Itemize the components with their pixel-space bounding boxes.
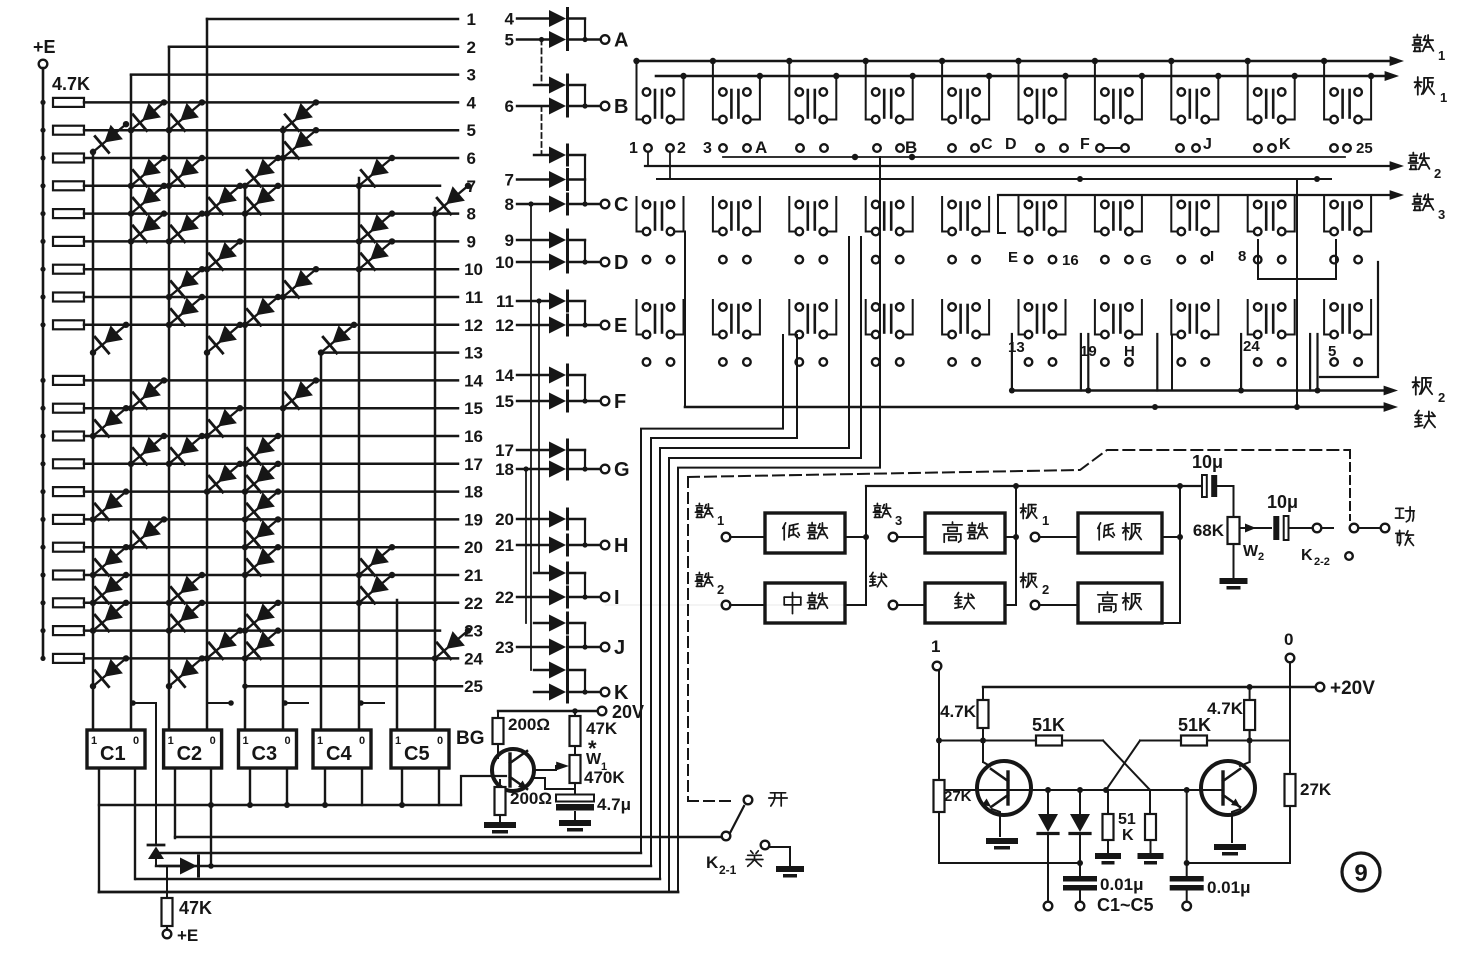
svg-text:I: I: [1210, 248, 1214, 265]
wire 4.7K left to collector: [982, 728, 984, 762]
svg-text:C1~C5: C1~C5: [1097, 895, 1154, 915]
svg-text:K: K: [1279, 136, 1291, 153]
label guan off: [751, 851, 753, 854]
resistor 51K mid-2: [1149, 790, 1151, 814]
wire middrum out2: [845, 604, 866, 606]
svg-text:47K: 47K: [179, 898, 212, 918]
wire cell row3-7 left: [1095, 300, 1101, 335]
wire cell row3-9 right: [1286, 300, 1295, 335]
diode steering D-a: [148, 844, 164, 847]
wire frame key 24: [1240, 334, 1242, 391]
wire mid join F: [584, 375, 586, 401]
wire pin 287: [286, 768, 288, 805]
wire 51K left out: [1062, 740, 1103, 742]
svg-text:5: 5: [1328, 343, 1336, 360]
svg-text:1: 1: [243, 735, 249, 747]
diode matrix D5-7: [245, 158, 278, 186]
node K2-2 contacts: [1313, 524, 1322, 533]
resistor 4.7K row 14: [53, 376, 84, 385]
wire cell row3-10 left: [1324, 300, 1330, 335]
wire cell row2-3 right: [827, 197, 836, 232]
svg-text:27K: 27K: [944, 788, 972, 805]
switch cell row3-10: [1341, 305, 1344, 333]
wire cell row3-8 left: [1171, 300, 1177, 335]
wire mid input 6: [517, 105, 549, 107]
diode mid E row 325: [549, 317, 566, 334]
switch K2-1 arm: [722, 832, 731, 841]
diode mid K row 670: [549, 662, 566, 679]
wire terminal0 drop: [1289, 662, 1291, 774]
node spare row3-4: [872, 358, 880, 366]
diode matrix D4-8: [207, 186, 240, 214]
wire cross B: [1106, 741, 1140, 791]
svg-text:0.01μ: 0.01μ: [1207, 878, 1251, 897]
wire jog c4: [209, 702, 231, 704]
svg-text:200Ω: 200Ω: [508, 715, 550, 734]
node spare row3-10: [1330, 358, 1338, 366]
block highdrum: [925, 513, 1005, 553]
wire matrix row line 4: [84, 101, 458, 104]
diode matrix D3-12: [169, 297, 202, 325]
diode matrix D2-17: [131, 436, 164, 464]
wire cell row2-6 left: [1019, 197, 1025, 232]
node keyC contact: [948, 144, 956, 152]
wire mid diode out D: [568, 239, 585, 241]
svg-text:2: 2: [1434, 166, 1441, 181]
switch cell row1-3: [806, 90, 809, 118]
diode matrix D4-18: [207, 464, 240, 492]
diode mid C row 155: [549, 147, 566, 164]
wire frame key 19: [1087, 334, 1089, 391]
wire bundle 3: [660, 237, 849, 879]
block lowdrum: [765, 513, 845, 553]
wire matrix row line 25: [245, 685, 462, 688]
wire cell row1-3 left: [789, 61, 795, 120]
diode matrix D2-15: [131, 380, 164, 408]
switch cell row3-2: [730, 305, 733, 333]
svg-text:H: H: [614, 535, 628, 557]
wire bo out: [1005, 604, 1016, 606]
resistor 27K left: [934, 780, 945, 812]
wire matrix row line 7: [84, 185, 440, 188]
svg-text:1: 1: [317, 735, 323, 747]
svg-text:4.7K: 4.7K: [1207, 699, 1244, 718]
resistor 4.7K right: [1249, 687, 1251, 700]
dashed box left: [687, 477, 689, 800]
wire cell row3-8 right: [1209, 300, 1218, 335]
svg-text:470K: 470K: [584, 768, 625, 787]
wire left emitter entry: [992, 809, 1000, 836]
resistor 4.7K row 16: [53, 432, 84, 441]
svg-text:6: 6: [467, 149, 476, 168]
wire cell row2-6 right: [1057, 197, 1066, 232]
svg-text:20: 20: [464, 538, 483, 557]
block middrum: [765, 583, 845, 623]
wire matrix row line 16: [84, 435, 458, 438]
wire mid branch feed I: [534, 572, 549, 574]
capacitor 0.01u left: [1063, 876, 1097, 882]
node spare row2-4: [872, 256, 880, 264]
diode timing left: [1047, 790, 1049, 814]
svg-text:9: 9: [467, 232, 476, 251]
svg-text:11: 11: [496, 292, 514, 311]
diode mid C row 204: [549, 196, 566, 213]
wire pin 135: [134, 768, 136, 879]
svg-text:18: 18: [464, 483, 483, 502]
wire cell row3-3 left: [789, 300, 795, 335]
svg-text:E: E: [1008, 249, 1018, 266]
wire mid input 21: [517, 544, 549, 546]
wire cell row1-7 right: [1133, 76, 1142, 120]
diode mid K row 692: [549, 684, 566, 701]
wire mid diode out D: [568, 261, 585, 263]
diode mid G row 450: [549, 442, 566, 459]
wire mid input 22: [517, 596, 549, 598]
svg-text:22: 22: [464, 594, 483, 613]
capacitor 10u first: [1202, 475, 1207, 497]
node output I: [601, 593, 610, 602]
svg-text:E: E: [614, 315, 627, 337]
node spare row2-6: [1025, 256, 1033, 264]
wire cell row1-9 left: [1248, 61, 1254, 120]
switch cell row1-2: [730, 90, 733, 118]
wire matrix row line 15: [84, 407, 458, 410]
switch cell row3-8: [1189, 305, 1192, 333]
resistor 4.7K row 15: [53, 404, 84, 413]
resistor 4.7K row 24: [53, 654, 84, 663]
wire bottom-left rail: [939, 862, 1080, 864]
diode matrix D6-11: [283, 269, 316, 297]
wire bundle 2: [651, 335, 797, 866]
wire cell row1-9 right: [1286, 76, 1295, 120]
node spare row2-1: [643, 256, 651, 264]
wire hbus 805: [99, 804, 461, 806]
diode matrix D5-19: [245, 492, 278, 520]
wire matrix row line 6: [84, 157, 458, 160]
svg-text:1: 1: [91, 735, 97, 747]
resistor 200ohm top: [497, 711, 499, 718]
wire pin 99: [98, 768, 100, 892]
wire hbus 866: [156, 865, 651, 867]
node input gu3: [876, 503, 878, 505]
dashed box bottom: [688, 800, 736, 802]
wire mid join A: [584, 19, 586, 40]
switch cell row2-6: [1036, 203, 1039, 230]
wire cell row2-8 right: [1209, 197, 1218, 232]
wire cell row2-4 right: [904, 197, 913, 232]
wire bundle 5: [678, 157, 880, 892]
diode matrix D4-13: [207, 325, 240, 353]
wire cell row3-9 left: [1248, 300, 1254, 335]
wire cell row1-7 left: [1095, 61, 1101, 120]
ground under cap: [574, 812, 576, 820]
svg-text:2: 2: [1438, 390, 1445, 405]
wire key8-key5 link: [1258, 240, 1336, 279]
diode matrix D2-8: [131, 186, 164, 214]
svg-text:15: 15: [464, 399, 483, 418]
switch cell row1-6: [1036, 90, 1039, 118]
svg-text:B: B: [614, 96, 628, 118]
svg-text:3: 3: [895, 513, 902, 528]
resistor 47K BG: [574, 711, 576, 716]
diode matrix D8-22: [359, 575, 392, 603]
resistor 4.7K row 17: [53, 459, 84, 468]
wire matrix column 9: [396, 600, 399, 730]
wire wiper 68K: [1240, 527, 1271, 529]
node spare row3-8: [1178, 358, 1186, 366]
switch cell row2-8: [1189, 203, 1192, 230]
wire mid input 17: [517, 449, 549, 451]
wire +E vertical rail: [42, 68, 45, 658]
wire after up diode: [155, 859, 157, 866]
wire gu3 left drop: [998, 195, 1005, 233]
wire mid diode out C: [568, 154, 585, 156]
resistor 4.7K row 10: [53, 265, 84, 274]
wire mid diode out I: [568, 572, 585, 574]
wire right collector entry: [1240, 730, 1250, 766]
wire mid input 7: [517, 178, 549, 180]
resistor 4.7K row 9: [53, 237, 84, 246]
node input ban1: [1022, 504, 1024, 519]
switch cell row2-4: [883, 203, 886, 230]
wire cell row1-10 left: [1324, 61, 1330, 120]
wire cell row1-4 left: [866, 61, 872, 120]
svg-text:C4: C4: [326, 743, 352, 765]
node spare row2-10: [1330, 256, 1338, 264]
svg-text:C2: C2: [177, 743, 203, 765]
svg-text:G: G: [614, 459, 630, 481]
resistor 4.7K row 12: [53, 320, 84, 329]
node spare row3-3: [796, 358, 804, 366]
svg-text:8: 8: [467, 205, 476, 224]
wire pin 175: [174, 768, 176, 838]
diode matrix D7-13: [321, 325, 354, 353]
diode matrix D3-11: [169, 269, 202, 297]
wire cell row1-8 right: [1209, 76, 1218, 120]
svg-text:0: 0: [210, 735, 216, 747]
pot 68K: [1228, 517, 1240, 544]
node output E: [601, 321, 610, 330]
wire mid branch feed B: [534, 84, 549, 86]
wire mid input 9: [517, 239, 549, 241]
wire matrix row line 18: [84, 490, 458, 493]
capacitor 4.7u: [574, 789, 576, 795]
svg-text:I: I: [614, 587, 620, 609]
wire cell row2-5 right: [980, 197, 989, 232]
wire pot bottom: [1233, 544, 1235, 578]
wire pin 325: [324, 768, 326, 805]
svg-text:0: 0: [133, 735, 139, 747]
node spare row2-7: [1101, 256, 1109, 264]
svg-text:A: A: [614, 30, 628, 52]
node key contacts 9: [1176, 144, 1184, 152]
ground under 200ohm: [499, 815, 501, 822]
switch cell row1-1: [654, 90, 657, 118]
svg-text:23: 23: [495, 638, 514, 657]
svg-text:9: 9: [505, 231, 514, 250]
svg-text:0: 0: [437, 735, 443, 747]
node key1 contacts: [644, 144, 652, 152]
svg-text:27K: 27K: [1300, 780, 1332, 799]
svg-text:2: 2: [1042, 582, 1049, 597]
wire cell row3-1 right: [675, 300, 684, 335]
wire matrix column 2: [130, 75, 133, 730]
wire mid input 18: [517, 468, 549, 470]
diode mid J row 623: [549, 615, 566, 632]
transistor BG: [492, 749, 534, 791]
svg-text:BG: BG: [456, 728, 485, 749]
node +E supply terminal top-left: [39, 60, 48, 69]
wire hbus 879: [136, 878, 660, 880]
svg-text:4.7K: 4.7K: [52, 74, 90, 94]
wire cell row3-1 left: [637, 300, 643, 335]
diode matrix D1-25: [93, 658, 126, 686]
wire 51K right out: [1207, 740, 1290, 742]
wire cell row2-1 right: [675, 197, 684, 232]
svg-text:10μ: 10μ: [1192, 452, 1223, 472]
wire cell row3-6 left: [1019, 300, 1025, 335]
diode matrix D3-25: [169, 658, 202, 686]
diode mid H row 545: [549, 537, 566, 554]
diode matrix D3-17: [169, 436, 202, 464]
wire cell row3-2 left: [713, 300, 719, 335]
node line1 corner: [206, 18, 208, 20]
wire right emitter entry: [1232, 809, 1240, 842]
diode mid H row 519: [549, 511, 566, 528]
svg-text:2-1: 2-1: [719, 863, 737, 877]
svg-text:16: 16: [1062, 252, 1079, 269]
wire mid input 14: [517, 374, 549, 376]
node keyD contacts: [1036, 144, 1044, 152]
svg-text:24: 24: [1243, 338, 1260, 355]
wire cell row2-9 right: [1286, 197, 1295, 232]
diode steering D-b: [180, 858, 197, 875]
node keyA contacts: [796, 144, 804, 152]
resistor 4.7K row 21: [53, 571, 84, 580]
capacitor 0.01u right: [1170, 876, 1204, 882]
switch cell row3-1: [654, 305, 657, 333]
svg-text:25: 25: [464, 677, 483, 696]
wire cell row2-8 left: [1171, 197, 1177, 232]
switch cell row1-8: [1189, 90, 1192, 118]
wire cell row1-6 right: [1057, 76, 1066, 120]
node output F: [601, 397, 610, 406]
diode mid I row 597: [549, 589, 566, 606]
wire bus ban2: [1011, 389, 1392, 392]
wire mid input 12: [517, 324, 549, 326]
svg-text:+E: +E: [177, 926, 198, 945]
svg-text:200Ω: 200Ω: [510, 789, 552, 808]
node C-term 3: [1186, 891, 1188, 902]
svg-text:1: 1: [1438, 48, 1445, 63]
svg-text:K: K: [614, 682, 629, 704]
wire mid branch feed J: [534, 622, 549, 624]
diode matrix D1-21: [93, 547, 126, 575]
node output A: [601, 35, 610, 44]
resistor 4.7K row 7: [53, 181, 84, 190]
node spare row3-7: [1101, 358, 1109, 366]
svg-text:C3: C3: [252, 743, 278, 765]
wire bottom-right rail: [1187, 862, 1290, 864]
wire matrix row line 11: [84, 296, 458, 299]
diode matrix D5-24: [245, 631, 278, 659]
wire matrix row line 1: [207, 18, 458, 21]
wire matrix row line 2: [169, 46, 458, 49]
switch cell row1-9: [1265, 90, 1268, 118]
wire hbus 838 K2-1 feed: [175, 836, 722, 838]
wire jog c6: [285, 702, 308, 704]
wire mid join K: [584, 670, 586, 692]
svg-text:5: 5: [467, 121, 476, 140]
node K2-1 off: [761, 841, 770, 850]
svg-text:16: 16: [464, 427, 483, 446]
wire cell row1-6 left: [1019, 61, 1025, 120]
svg-text:22: 22: [495, 588, 514, 607]
switch cell row2-1: [654, 203, 657, 230]
wire mid join I: [584, 573, 586, 597]
wire diode rail: [1008, 789, 1150, 791]
wire highban out: [1162, 622, 1180, 624]
wire cell row3-5 left: [942, 300, 948, 335]
flip-flop C3: [239, 730, 297, 768]
svg-text:7: 7: [505, 171, 514, 190]
svg-text:68K: 68K: [1193, 521, 1225, 540]
wire W1 wiper: [536, 766, 556, 770]
wire mid join D: [584, 240, 586, 262]
wire matrix column 1: [92, 150, 95, 730]
label bus ban2: [1415, 377, 1417, 395]
block highban: [1078, 583, 1162, 623]
diode matrix D6-6: [283, 130, 316, 158]
figure number 9: [1342, 853, 1380, 891]
wire mid input 4: [517, 17, 549, 19]
diode matrix D6-5: [283, 102, 316, 130]
wire base right seg: [1150, 789, 1223, 791]
wire cell row2-10 right: [1362, 197, 1371, 232]
svg-text:0: 0: [1284, 630, 1293, 649]
wire mid diode out F: [568, 374, 585, 376]
diode matrix D1-6: [93, 124, 126, 152]
node output G: [601, 465, 610, 474]
wire mid diode out J: [568, 646, 585, 648]
wire 27K drop: [938, 741, 940, 781]
wire cell row1-1 left: [637, 61, 643, 120]
block bo: [925, 583, 1005, 623]
wire bus gu3: [998, 194, 1398, 196]
wire middrum out: [605, 604, 845, 606]
wire lowban out: [1162, 536, 1180, 538]
diode matrix D8-10: [359, 241, 392, 269]
wire pin 211: [210, 768, 212, 866]
switch cell row3-5: [959, 305, 962, 333]
svg-text:0: 0: [359, 735, 365, 747]
svg-text:2: 2: [467, 38, 476, 57]
wire 27K right bottom: [1289, 806, 1291, 863]
svg-text:2: 2: [717, 582, 724, 597]
wire hbus 853: [156, 852, 641, 854]
resistor 27K right: [1285, 774, 1296, 806]
wire matrix row line 9: [84, 240, 458, 243]
wire feeder line18->J: [525, 469, 527, 623]
wire mid diode out A: [568, 17, 585, 19]
diode mid C row 180: [549, 171, 566, 188]
wire pin 362: [361, 768, 363, 805]
wire bus ban1: [656, 75, 1393, 78]
switch cell row3-7: [1112, 305, 1115, 333]
pot W1 470K: [574, 746, 576, 755]
wire mid input 5: [517, 38, 549, 40]
node input bo: [871, 572, 873, 576]
